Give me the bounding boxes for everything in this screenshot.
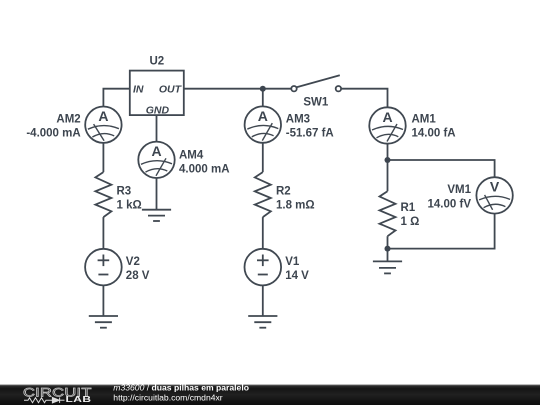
voltmeter VM1 [476, 177, 512, 213]
svg-text:VM1: VM1 [447, 184, 471, 196]
node C (R1/VM1 bottom junction) [385, 246, 391, 252]
wire AM3 to R2 [262, 143, 264, 172]
wire node to R1 [387, 160, 389, 191]
svg-text:1.8 mΩ: 1.8 mΩ [276, 200, 315, 212]
wire R2 to V1 [262, 217, 264, 249]
voltage source V1 [244, 249, 281, 286]
node B (AM1/R1/VM1 top junction) [385, 157, 391, 163]
voltage source V2 [85, 249, 122, 286]
svg-text:m33600 / duas pilhas em parale: m33600 / duas pilhas em paralelo [113, 383, 249, 393]
svg-text:-51.67 fA: -51.67 fA [286, 128, 334, 140]
svg-text:1 kΩ: 1 kΩ [117, 200, 142, 212]
wire R3 to V2 [102, 217, 104, 249]
svg-text:V2: V2 [126, 256, 140, 268]
svg-text:GND: GND [146, 105, 170, 117]
wire bottom node to ground [387, 249, 389, 262]
op-amp U2 box [130, 71, 184, 116]
svg-text:R3: R3 [117, 185, 132, 197]
svg-text:14.00 fA: 14.00 fA [412, 128, 456, 140]
wire switch to AM1 elbow [341, 89, 387, 108]
resistor R1 [380, 191, 396, 236]
wire V2 to ground [102, 285, 104, 316]
wire U2 GND to AM4 [156, 115, 158, 142]
wire IN to AM2 elbow [103, 89, 129, 107]
ammeter AM2 [85, 107, 121, 143]
logo resistor-diode glyph [24, 398, 65, 403]
svg-text:AM1: AM1 [412, 113, 437, 125]
wire AM1 to node [387, 144, 389, 161]
svg-text:V1: V1 [285, 256, 300, 268]
node A (OUT junction) [260, 86, 266, 92]
svg-text:14.00 fV: 14.00 fV [428, 198, 472, 210]
ground below R1 [373, 261, 402, 273]
wire top node to VM1 [388, 160, 495, 178]
wire AM2 to R3 [102, 143, 104, 172]
svg-text:AM3: AM3 [286, 113, 310, 125]
ground below V1 [248, 316, 277, 328]
svg-text:R2: R2 [276, 185, 291, 197]
svg-text:R1: R1 [401, 202, 416, 214]
ammeter AM1 [369, 107, 405, 143]
svg-text:U2: U2 [149, 56, 164, 68]
svg-text:28 V: 28 V [126, 270, 150, 282]
wire R1 to bottom node [387, 236, 389, 248]
svg-text:V: V [490, 179, 500, 195]
ground below V2 [89, 316, 118, 328]
svg-text:A: A [258, 108, 268, 124]
footer bar [0, 385, 540, 406]
ammeter AM3 [245, 106, 281, 142]
svg-text:4.000 mA: 4.000 mA [179, 164, 230, 176]
svg-text:A: A [151, 143, 161, 159]
svg-text:OUT: OUT [159, 84, 183, 96]
svg-text:IN: IN [133, 84, 144, 96]
wire VM1 to bottom node [388, 213, 495, 249]
wire AM4 to ground [156, 178, 158, 210]
wire OUT to switch [184, 88, 292, 90]
svg-text:A: A [382, 109, 392, 125]
svg-text:-4.000 mA: -4.000 mA [26, 128, 80, 140]
svg-text:SW1: SW1 [303, 96, 329, 108]
svg-text:1 Ω: 1 Ω [401, 216, 420, 228]
svg-text:http://circuitlab.com/cmdn4xr: http://circuitlab.com/cmdn4xr [113, 392, 223, 402]
resistor R3 [95, 172, 111, 217]
wire V1 to ground [262, 285, 264, 316]
ammeter AM4 [138, 142, 174, 178]
svg-text:AM4: AM4 [179, 150, 204, 162]
resistor R2 [255, 172, 271, 217]
svg-text:14 V: 14 V [285, 270, 309, 282]
switch SW1 [291, 75, 341, 91]
svg-text:LAB: LAB [66, 396, 92, 405]
ground below AM4 [142, 210, 171, 221]
svg-text:A: A [98, 108, 108, 124]
wire AM3 branch [262, 89, 264, 107]
svg-text:AM2: AM2 [56, 113, 80, 125]
